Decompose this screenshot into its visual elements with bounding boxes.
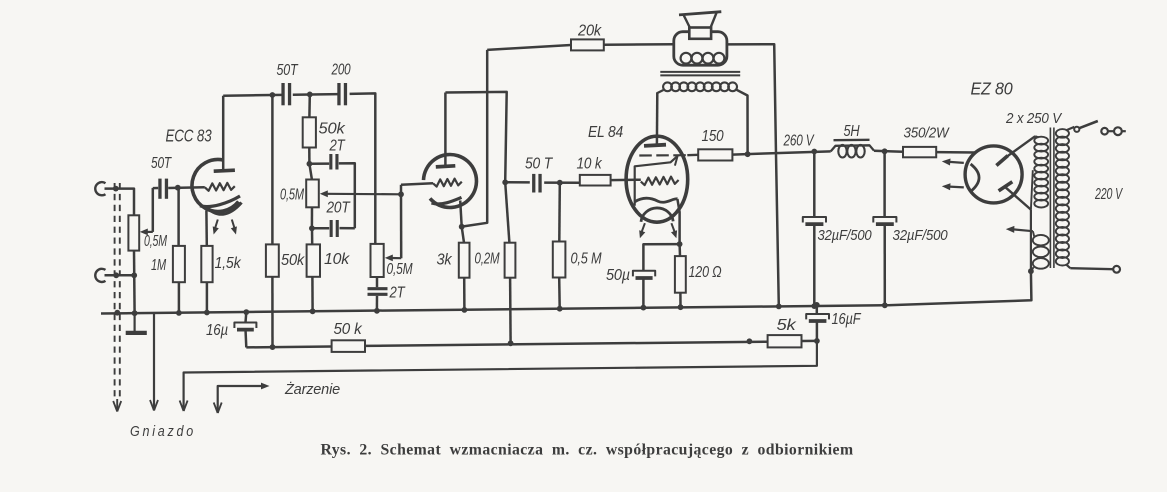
- chassis ground symbol: [126, 313, 147, 333]
- label 50k tone: [319, 121, 346, 138]
- wire EL84 anode riser: [656, 92, 659, 145]
- label 150: [702, 128, 724, 145]
- label 0,2M: [475, 251, 501, 268]
- resistor 50k tone: [303, 94, 316, 163]
- mains switch: [1066, 121, 1098, 132]
- wire pot bottom to ground rail: [133, 251, 136, 314]
- capacitor 32uF/500 second: [873, 151, 896, 305]
- label 2T upper: [329, 138, 346, 155]
- tube EZ80 envelope: [965, 146, 1022, 203]
- wire B+ feed line mid: [365, 342, 768, 346]
- svg-text:120 Ω: 120 Ω: [689, 264, 722, 281]
- resistor 0,2M: [505, 182, 516, 343]
- cathode triode 2: [432, 197, 462, 204]
- anode plate triode 1: [214, 170, 235, 171]
- wiper arrow input pot: [140, 229, 153, 236]
- svg-text:1M: 1M: [151, 257, 167, 274]
- capacitor 50µ: [633, 271, 655, 278]
- tube ECC83 triode 2 envelope: [424, 154, 477, 207]
- wire coupling node to 50T: [505, 181, 530, 184]
- capacitor 50T input: [158, 179, 168, 199]
- resistor 1M: [173, 188, 185, 313]
- wire anode2 to coupling: [445, 92, 506, 182]
- wire 350 to EZ80 cathode: [936, 151, 976, 154]
- node tone stack top: [307, 161, 313, 167]
- label Gniazdo: [130, 424, 196, 440]
- heater winding tap arrow: [1006, 226, 1033, 233]
- node filter cap 1 tap: [811, 149, 817, 155]
- node 1M-ground: [176, 310, 182, 316]
- svg-text:Rys. 2. Schemat wzmacniacza m.: Rys. 2. Schemat wzmacniacza m. cz. współ…: [321, 442, 854, 459]
- node 0.2M feed: [508, 340, 514, 346]
- node transformer return: [1028, 268, 1034, 274]
- label 1M: [151, 257, 167, 274]
- mains primary winding 220V: [1056, 129, 1069, 265]
- capacitor 200: [337, 83, 347, 105]
- node tone mid: [307, 92, 313, 98]
- node 2T-ground: [374, 308, 380, 314]
- svg-text:5H: 5H: [844, 123, 861, 140]
- capacitor 2T upper: [329, 154, 338, 170]
- choke 5H: [831, 145, 874, 158]
- node 120ohm-ground: [678, 304, 684, 310]
- label 220V: [1094, 186, 1123, 203]
- wire 20T to right leg: [340, 227, 355, 230]
- zarzenie branch: [214, 383, 270, 413]
- node 50u-ground: [641, 305, 647, 311]
- primary winding loops: [663, 82, 737, 91]
- svg-text:5k: 5k: [777, 317, 797, 334]
- svg-text:10k: 10k: [324, 251, 350, 268]
- node grid1: [175, 185, 181, 191]
- ground rail: [101, 305, 885, 313]
- cathode triode 1: [200, 196, 240, 207]
- label 0,5M input pot: [144, 233, 168, 250]
- wire primary right lead: [737, 90, 748, 154]
- svg-text:50T: 50T: [277, 62, 299, 79]
- potentiometer 0.5M volume: [371, 244, 384, 277]
- label 260V: [783, 133, 815, 150]
- svg-text:0,5M: 0,5M: [144, 233, 168, 250]
- label 2x250V: [1005, 111, 1062, 127]
- node filter cap 2 tap: [882, 148, 888, 154]
- speaker magnet: [689, 28, 711, 39]
- wire 20k to secondary: [604, 43, 674, 46]
- heater arrow triode 1 right: [231, 220, 237, 235]
- HV secondary winding 2x250V: [1031, 136, 1048, 209]
- label 32uF/500 first: [818, 228, 872, 244]
- wiper arrow volume pot: [385, 255, 401, 262]
- svg-text:16µF: 16µF: [832, 311, 862, 328]
- wire feedback 20k to cathode2: [464, 50, 488, 227]
- speaker cone: [679, 12, 721, 28]
- svg-text:2T: 2T: [329, 138, 346, 155]
- cathode EZ80: [971, 164, 979, 192]
- node cathode2: [459, 224, 465, 230]
- node shield-jack2: [113, 272, 119, 278]
- node EL84 cathode: [677, 241, 683, 247]
- wire anode2 net to 20k: [487, 45, 571, 50]
- label 50T coupling: [525, 156, 553, 173]
- wire heater supply line: [180, 341, 817, 411]
- node tone stack bottom: [309, 225, 315, 231]
- wire primary bottom: [1066, 264, 1113, 269]
- label 50T input: [151, 155, 172, 172]
- heater arrow triode 1 left: [213, 220, 219, 235]
- node plate load 1 feed: [270, 344, 276, 350]
- resistor 50k plate load 1: [266, 95, 279, 347]
- wire wiper riser: [152, 188, 155, 232]
- wire 50u to ground: [642, 277, 645, 307]
- label EZ80: [971, 79, 1013, 99]
- svg-text:EZ 80: EZ 80: [971, 79, 1013, 99]
- capacitor 50T tone: [281, 83, 291, 105]
- label 0,5M volume: [387, 261, 414, 278]
- control grid EL84: [641, 177, 679, 186]
- resistor 10k grid stopper: [580, 175, 611, 186]
- svg-text:EL 84: EL 84: [588, 124, 624, 141]
- resistor 3k: [459, 227, 470, 310]
- svg-text:0,5M: 0,5M: [387, 261, 414, 278]
- capacitor 20T: [330, 220, 339, 237]
- resistor 350/2W: [903, 147, 936, 157]
- node 16uF junction: [814, 338, 820, 344]
- wire to 2T upper: [309, 162, 329, 165]
- wire cathode2 down: [460, 201, 462, 227]
- wire anode2 riser: [444, 93, 447, 167]
- label 50T tone: [277, 62, 299, 79]
- label 50µ: [606, 267, 630, 284]
- wire volume wiper riser: [400, 194, 403, 258]
- node pot-ground: [132, 310, 138, 316]
- node 1.5k-ground: [204, 310, 210, 316]
- speaker coil housing: [674, 32, 727, 65]
- svg-text:1,5k: 1,5k: [215, 255, 242, 272]
- rectifier heater winding: [1031, 231, 1049, 271]
- node 10k-ground: [310, 308, 316, 314]
- label ECC83: [166, 126, 212, 146]
- svg-text:50 k: 50 k: [334, 321, 363, 338]
- grid triode 1: [205, 183, 235, 191]
- wiper arrow tone pot: [320, 190, 401, 197]
- svg-text:20T: 20T: [326, 200, 351, 217]
- node grid leak tap: [557, 180, 563, 186]
- transformer core: [660, 72, 740, 76]
- node 3k-ground: [462, 307, 468, 313]
- anode plate triode 2: [436, 166, 456, 167]
- svg-text:0,5M: 0,5M: [280, 187, 305, 204]
- node coupling: [502, 179, 508, 185]
- svg-text:50T: 50T: [151, 155, 172, 172]
- svg-text:16µ: 16µ: [206, 322, 228, 339]
- svg-text:32µF/500: 32µF/500: [818, 228, 872, 244]
- label 200: [331, 62, 351, 79]
- svg-text:50µ: 50µ: [606, 267, 630, 284]
- node B+ down feed: [747, 338, 753, 344]
- wire 50T to grid: [168, 186, 205, 189]
- label 350/2W: [904, 126, 950, 142]
- wire screen B+ line: [732, 151, 830, 154]
- svg-text:350/2W: 350/2W: [904, 126, 950, 142]
- wire jack2: [105, 274, 135, 277]
- label 5k: [777, 317, 797, 334]
- tube ECC83 triode 1 envelope: [192, 160, 239, 212]
- base dome EL84: [641, 208, 673, 222]
- anode 2 EZ80: [999, 182, 1031, 210]
- anode plate EL84: [644, 145, 666, 146]
- potentiometer 0.5M input: [128, 215, 139, 250]
- capacitor 16µ decoupling: [234, 312, 256, 347]
- capacitor 2T bottom: [368, 277, 388, 311]
- svg-text:150: 150: [702, 128, 724, 145]
- wire HV return: [1030, 210, 1032, 272]
- capacitor 32uF/500 first: [803, 152, 826, 307]
- power transformer core: [1050, 128, 1054, 269]
- svg-text:3k: 3k: [437, 252, 453, 269]
- capacitor 50T coupling: [532, 174, 542, 193]
- label 120 ohm: [689, 264, 722, 281]
- svg-text:2T: 2T: [389, 285, 406, 302]
- wire speaker return: [727, 44, 779, 306]
- label Zarzenie: [284, 381, 340, 398]
- heater arrow EZ80 lower: [942, 183, 964, 190]
- wire grid2 from wiper node: [401, 183, 433, 194]
- label 50k feed: [334, 321, 363, 338]
- wire anode1 riser: [222, 96, 225, 171]
- grid triode 2: [433, 179, 462, 187]
- node 0.5Mgrid-ground: [557, 306, 563, 312]
- label 20T: [326, 200, 351, 217]
- svg-text:ECC 83: ECC 83: [166, 126, 212, 146]
- svg-text:220 V: 220 V: [1094, 186, 1123, 203]
- wire tone pot bottom: [311, 207, 314, 228]
- label 5H: [834, 123, 870, 140]
- input jack J1: [95, 182, 105, 195]
- resistor 5k feed: [768, 335, 802, 347]
- node jack2-pot: [131, 272, 137, 278]
- svg-text:20k: 20k: [577, 23, 602, 40]
- wire to 50u: [643, 244, 679, 270]
- wire between tone caps: [293, 93, 339, 96]
- wire 50T to 10k: [544, 181, 580, 184]
- label 10k tone: [324, 251, 350, 268]
- wire jack1 to volume pot top: [105, 189, 135, 216]
- svg-text:0,2M: 0,2M: [475, 251, 501, 268]
- wire to 20T: [312, 227, 329, 230]
- label 20k: [577, 23, 602, 40]
- label 1,5k: [215, 255, 242, 272]
- label 10k grid stopper: [577, 156, 603, 173]
- wire wiper to 50T: [153, 187, 158, 190]
- resistor 20k: [571, 39, 604, 50]
- caption: [321, 442, 854, 459]
- resistor 150: [698, 149, 732, 160]
- svg-text:50 T: 50 T: [525, 156, 553, 173]
- potentiometer 0.5M tone: [306, 164, 319, 208]
- resistor 50k feed: [332, 340, 365, 352]
- node speaker return ground: [776, 304, 782, 310]
- label 16µF: [832, 311, 862, 328]
- shield dashed line b: [119, 183, 121, 399]
- label 3k: [437, 252, 453, 269]
- svg-text:50k: 50k: [281, 252, 305, 269]
- input jack J2: [95, 269, 105, 282]
- resistor 1,5k cathode: [201, 211, 212, 313]
- tube EL84 envelope: [626, 136, 688, 222]
- wire EL84 cathode down: [677, 199, 679, 244]
- node shield-jack1: [113, 186, 119, 192]
- wire 2T upper to right leg: [339, 163, 355, 228]
- node primary B+: [745, 151, 751, 157]
- heater arrow EL84 right: [671, 223, 677, 238]
- wire choke to 350 resistor: [874, 151, 903, 152]
- wire anode1 top rail: [223, 94, 283, 97]
- wire transformer to ground rail: [885, 271, 1032, 305]
- resistor 10k tone: [307, 228, 320, 311]
- mains terminal pair: [1101, 127, 1126, 135]
- svg-text:0,5 M: 0,5 M: [571, 251, 603, 268]
- wire 5k to 16uF node: [802, 340, 817, 343]
- svg-text:32µF/500: 32µF/500: [893, 228, 948, 244]
- node 16u-ground: [243, 309, 249, 315]
- label 2T bottom: [389, 285, 406, 302]
- wire 200 cap to 0.5M riser: [350, 93, 376, 244]
- mains terminal bottom: [1113, 266, 1120, 273]
- wire primary left curl: [657, 90, 663, 93]
- label 0,5M grid: [571, 251, 603, 268]
- heater arrow EZ80 upper: [942, 159, 964, 166]
- svg-text:50k: 50k: [319, 121, 346, 138]
- anode 1 EZ80: [996, 136, 1035, 165]
- node cap1-ground: [811, 303, 817, 309]
- wire 10k to EL84 grid: [611, 178, 641, 181]
- resistor 0,5M grid EL84: [553, 183, 566, 309]
- node cap2-ground: [882, 302, 888, 308]
- heater loop triode 1: [206, 203, 242, 215]
- svg-text:260 V: 260 V: [783, 133, 815, 150]
- resistor 120 ohm: [675, 244, 686, 307]
- node 16uF-ground: [814, 302, 820, 308]
- svg-text:200: 200: [331, 62, 351, 79]
- label 32uF/500 second: [893, 228, 948, 244]
- node shield-rail: [114, 310, 120, 316]
- svg-text:10 k: 10 k: [577, 156, 603, 173]
- node wiper line: [398, 191, 404, 197]
- label EL84: [588, 124, 624, 141]
- label 0,5M tone: [280, 187, 305, 204]
- node 50k-left tap: [270, 92, 276, 98]
- heater arrow EL84 left: [639, 223, 645, 238]
- svg-text:Gniazdo: Gniazdo: [130, 424, 196, 440]
- svg-text:Żarzenie: Żarzenie: [284, 381, 340, 398]
- svg-text:2 x 250 V: 2 x 250 V: [1005, 111, 1062, 127]
- cathode EL84: [635, 198, 678, 202]
- label 16µ: [206, 322, 228, 339]
- shield ground arrow: [113, 399, 121, 412]
- capacitor 16µF: [806, 305, 829, 341]
- secondary winding loops: [681, 53, 725, 64]
- wire B+ feed line left: [246, 345, 331, 348]
- screen grid EL84: [639, 154, 698, 157]
- beam plate box EL84: [635, 156, 678, 206]
- label 50k plate load: [281, 252, 305, 269]
- ground lead to socket: [150, 313, 158, 411]
- shield dashed line a: [114, 183, 116, 399]
